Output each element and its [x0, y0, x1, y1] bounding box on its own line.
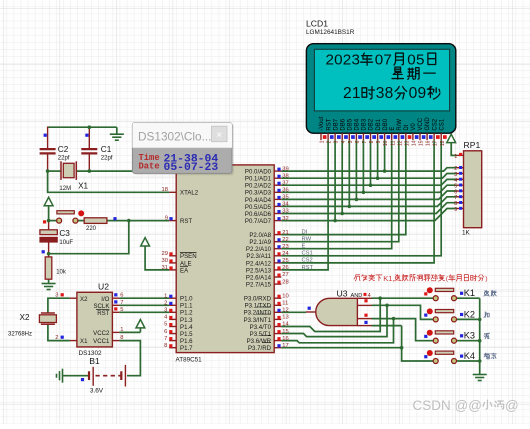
wire: ground rail [479, 298, 481, 374]
svg-text:14: 14 [412, 140, 418, 146]
svg-text:22pf: 22pf [58, 155, 70, 161]
U2 right pin stub y=312.3 [112, 311, 119, 313]
svg-text:16: 16 [282, 336, 288, 342]
RP1 pin stubs [457, 154, 464, 156]
svg-text:6: 6 [164, 329, 167, 335]
wire: P3.4 net to riser/K1 [281, 298, 380, 331]
U2 right pin stub y=332.4 [112, 331, 119, 333]
svg-text:P3.1/TXD: P3.1/TXD [245, 303, 272, 310]
svg-text:28: 28 [282, 279, 288, 285]
svg-text:P1.5: P1.5 [180, 331, 193, 338]
svg-text:PSEN: PSEN [180, 253, 197, 260]
svg-text:2: 2 [55, 335, 58, 341]
svg-text:12: 12 [397, 140, 403, 146]
crystal X1 12M [60, 161, 62, 180]
svg-text:39: 39 [282, 166, 288, 172]
svg-text:3: 3 [55, 293, 58, 299]
svg-text:10uF: 10uF [59, 240, 73, 246]
wire: X1 right to C1 bottom and XTAL1 [76, 170, 169, 172]
svg-text:RST: RST [326, 118, 332, 130]
svg-text:P0.7/AD7: P0.7/AD7 [245, 218, 272, 225]
svg-text:07: 07 [375, 52, 392, 69]
svg-text:K2: K2 [464, 309, 475, 319]
svg-text:VCC: VCC [418, 117, 424, 130]
LCD body [306, 44, 455, 134]
wire: VCC arrow to reset button node [48, 206, 50, 221]
svg-text:13: 13 [282, 315, 288, 321]
svg-text:DB6: DB6 [340, 118, 346, 130]
svg-text:38: 38 [282, 173, 288, 179]
svg-text:P0.3/AD3: P0.3/AD3 [245, 190, 272, 197]
svg-text:10k: 10k [56, 269, 67, 275]
wire: LCD DB0 down [384, 140, 386, 171]
svg-text:5: 5 [348, 140, 354, 143]
svg-text:18: 18 [440, 140, 446, 146]
pushbutton K1 [435, 288, 453, 291]
svg-text:15: 15 [419, 140, 425, 146]
svg-text:38: 38 [376, 85, 394, 102]
capacitor C3 10uF [40, 230, 57, 235]
wire: battery negative to ground [63, 375, 90, 377]
MCU left pin stubs [169, 170, 176, 172]
svg-text:VCC1: VCC1 [93, 338, 110, 345]
svg-text:X1: X1 [78, 182, 88, 191]
svg-text:P1.1: P1.1 [180, 303, 193, 310]
svg-text:9: 9 [165, 216, 168, 222]
wire: LCD CS1 to P2.3 [281, 140, 441, 256]
wire: ground rail above C2/C1 [48, 126, 117, 128]
svg-text:8: 8 [369, 140, 375, 143]
svg-text:11: 11 [282, 301, 288, 307]
svg-text:2: 2 [164, 301, 167, 307]
svg-text:P2.6/A14: P2.6/A14 [246, 274, 272, 281]
wire: P3.5 net to riser [281, 305, 387, 336]
wire: LCD R/W to P2.1 [281, 140, 399, 242]
wire: X2 crystal top lead to U2.X2 [48, 298, 70, 313]
U2 right pin stub y=305.3 [112, 304, 119, 306]
svg-text:XTAL2: XTAL2 [180, 190, 199, 197]
svg-text:22pf: 22pf [101, 155, 113, 161]
svg-text:14: 14 [282, 322, 289, 328]
svg-text:P1.2: P1.2 [180, 310, 193, 317]
svg-text:05-07-23: 05-07-23 [164, 162, 219, 174]
U2 right pin stub y=340.6 [112, 340, 119, 342]
svg-text:P1.7: P1.7 [180, 345, 193, 352]
svg-text:9: 9 [376, 140, 382, 143]
svg-text:11: 11 [390, 140, 396, 145]
svg-text:E: E [302, 244, 306, 250]
wire: AND in2 row to K2 [372, 305, 434, 319]
svg-text:C2: C2 [58, 145, 69, 154]
svg-text:32: 32 [282, 216, 288, 222]
wire: LCD DB4 down [355, 140, 357, 199]
red instruction text [354, 274, 488, 283]
svg-text:): ) [485, 276, 487, 283]
svg-text:P0.2/AD2: P0.2/AD2 [245, 183, 272, 190]
ground (battery, rotated) [57, 369, 63, 383]
svg-text:P1.3: P1.3 [180, 317, 193, 324]
svg-text:CSDN @@: CSDN @@ [413, 398, 482, 413]
svg-text:C3: C3 [59, 229, 70, 238]
svg-text:@: @ [505, 398, 519, 413]
popup window DS1302 clock [132, 123, 233, 176]
svg-text:P2.4/A12: P2.4/A12 [246, 260, 272, 267]
svg-text:P2.2/A10: P2.2/A10 [246, 246, 272, 253]
svg-text:35: 35 [282, 195, 288, 201]
pushbutton K2 [435, 310, 453, 313]
svg-text:21: 21 [343, 85, 361, 102]
svg-text:VCC2: VCC2 [93, 330, 110, 337]
svg-text:1K: 1K [462, 230, 471, 237]
svg-text:13: 13 [404, 140, 410, 146]
svg-text:AND: AND [351, 293, 363, 299]
ground (crystal caps) [116, 127, 118, 134]
crystal X2 32768Hz [41, 312, 55, 314]
wire: P3.2/INT0 to U3 output [281, 311, 306, 313]
svg-text:RP1: RP1 [464, 140, 481, 150]
svg-text:P0.5/AD5: P0.5/AD5 [245, 204, 272, 211]
svg-text:GND: GND [425, 117, 431, 131]
wire: LCD DB1 down [377, 140, 379, 178]
svg-text:DB0: DB0 [383, 118, 389, 130]
svg-text:I/O: I/O [101, 296, 109, 303]
svg-text:CS2: CS2 [302, 258, 313, 264]
U2 left pin stub y=340.6 [70, 340, 77, 342]
svg-text:P1.4: P1.4 [180, 324, 193, 331]
svg-text:26: 26 [282, 265, 288, 271]
svg-text:P2.7/A15: P2.7/A15 [246, 282, 272, 289]
resistor pack RP1 [464, 151, 482, 228]
svg-text:3.6V: 3.6V [90, 387, 104, 394]
ground (buttons) [473, 375, 487, 381]
svg-text:DB2: DB2 [369, 118, 375, 130]
svg-text:P2.3/A11: P2.3/A11 [246, 253, 271, 260]
svg-text:16: 16 [426, 140, 432, 146]
svg-text:09: 09 [409, 85, 427, 102]
svg-text:25: 25 [282, 258, 288, 264]
svg-text:K1: K1 [464, 288, 475, 298]
svg-text:21: 21 [282, 230, 288, 236]
svg-text:1: 1 [320, 140, 326, 143]
LCD pin stubs [320, 133, 322, 140]
power VCC arrow (RP1) [447, 134, 456, 142]
svg-text:DI: DI [404, 124, 410, 130]
U2 right pin stub y=298.2 [112, 297, 119, 299]
svg-text:X1: X1 [80, 338, 88, 345]
svg-text:P3.7/RD: P3.7/RD [248, 345, 272, 352]
wire: U2 SCLK to P1.1 [119, 304, 169, 306]
wire: VCC arrow to RP1 pin1 [451, 143, 456, 156]
watermark CSDN [413, 398, 520, 414]
svg-text:P3.3/INT1: P3.3/INT1 [244, 317, 272, 324]
svg-text:15: 15 [282, 329, 288, 335]
svg-text:10: 10 [282, 293, 288, 299]
svg-text:36: 36 [282, 188, 288, 194]
svg-text:17: 17 [433, 140, 439, 146]
svg-text:18: 18 [162, 187, 168, 193]
svg-text:17: 17 [282, 343, 288, 349]
svg-text:DB1: DB1 [376, 118, 382, 130]
junction dots crystal net [88, 125, 92, 129]
svg-text:7: 7 [120, 300, 123, 306]
svg-text:P0.4/AD4: P0.4/AD4 [245, 197, 272, 204]
svg-text:P1.0: P1.0 [180, 296, 193, 303]
svg-text:X2: X2 [20, 313, 30, 322]
svg-text:5: 5 [164, 322, 167, 328]
svg-text:P3.0/RXD: P3.0/RXD [244, 296, 272, 303]
svg-text:P2.1/A9: P2.1/A9 [249, 239, 271, 246]
svg-text:U2: U2 [98, 282, 109, 292]
wire: LCD DB2 down [370, 140, 372, 185]
svg-text:3: 3 [334, 140, 340, 143]
svg-text:CS1: CS1 [439, 118, 445, 130]
resistor 10k [45, 257, 52, 279]
svg-text:23: 23 [282, 244, 288, 250]
wire: LCD CS2 to P2.4 [281, 140, 434, 263]
svg-text:P1.6: P1.6 [180, 338, 193, 345]
svg-text:7: 7 [362, 140, 368, 143]
wire: C2 down to XTAL2 pin18 [48, 171, 170, 192]
svg-text:P3.5/T1: P3.5/T1 [250, 331, 272, 338]
svg-text:LGM12641BS1R: LGM12641BS1R [306, 29, 355, 36]
svg-text:2: 2 [327, 140, 333, 143]
resistor 220 [84, 218, 107, 224]
svg-text:DB4: DB4 [355, 118, 361, 130]
wire: C3 top lead [48, 221, 50, 230]
svg-text:05: 05 [407, 52, 424, 69]
svg-text:-Vout: -Vout [319, 116, 325, 130]
svg-text:4: 4 [341, 140, 347, 143]
ground (10k) [42, 284, 56, 290]
wire: AND in3 row to K3 [372, 319, 434, 341]
svg-text:5: 5 [120, 307, 123, 313]
svg-text:DB5: DB5 [348, 118, 354, 130]
svg-text:RST: RST [302, 265, 314, 271]
wire: U2 RST to P1.2 [119, 311, 169, 313]
svg-text:3: 3 [164, 308, 167, 314]
wire: LCD DB6 down [341, 140, 343, 213]
MCU right pin stubs [274, 170, 281, 172]
wire: C3 bottom to 10k [48, 242, 50, 257]
power VCC arrow (EA pin31) [141, 238, 150, 246]
svg-text:24: 24 [282, 251, 289, 257]
svg-text:1: 1 [120, 327, 123, 333]
power VCC arrow (U2 VCC2) [136, 320, 145, 328]
pushbutton K3 [435, 331, 453, 334]
svg-text:K3: K3 [464, 331, 475, 341]
svg-text:31: 31 [162, 265, 168, 271]
svg-text:LCD1: LCD1 [306, 19, 328, 29]
svg-text:P3.4/T0: P3.4/T0 [250, 324, 272, 331]
svg-text:DB3: DB3 [362, 118, 368, 130]
svg-text:32768Hz: 32768Hz [8, 332, 32, 338]
wire: LCD DB3 down [362, 140, 364, 192]
svg-text:CS1: CS1 [302, 251, 313, 257]
svg-text:EA: EA [180, 267, 189, 274]
svg-text:P0.0/AD0: P0.0/AD0 [245, 169, 272, 176]
wire: U2 VCC1 to battery positive [119, 341, 140, 376]
wire: reset row VCC->button->R->RST pin9 [49, 220, 57, 222]
wire: LCD DI to P2.0 [281, 140, 406, 234]
svg-text:4: 4 [368, 293, 371, 299]
wire: buttons right terminals to ground rail [456, 297, 479, 299]
wire: LCD RST pin2 to P2.5 [281, 140, 328, 270]
svg-text:C1: C1 [101, 145, 112, 154]
svg-text:37: 37 [282, 180, 288, 186]
svg-text:6: 6 [120, 293, 123, 299]
svg-text:ALE: ALE [180, 260, 192, 267]
svg-text:K1,: K1, [383, 274, 394, 283]
power VCC arrow (reset) [44, 197, 53, 205]
wire: 10k bottom to ground [48, 279, 50, 283]
wire: C1 top lead [88, 127, 90, 148]
IC U1 AT89C51 [176, 165, 274, 353]
svg-text:R/W: R/W [397, 119, 403, 131]
capacitor C1 [81, 148, 97, 150]
svg-text:DS1302\Clo...: DS1302\Clo... [138, 130, 211, 144]
wire: P3.6 net to riser [281, 319, 393, 343]
wire: P3.7 net riser to AND in4 and K4 [281, 347, 401, 349]
wire: P0 bus rows to RP1 [281, 168, 456, 171]
svg-text:B1: B1 [89, 356, 100, 366]
svg-text:10: 10 [383, 140, 389, 146]
svg-text:CS2: CS2 [432, 118, 438, 130]
capacitor C2 [40, 148, 56, 150]
svg-text:8: 8 [164, 343, 167, 349]
svg-text:DI: DI [302, 229, 308, 235]
wire: LCD E to P2.2 [281, 140, 391, 249]
svg-text:AT89C51: AT89C51 [176, 357, 203, 364]
wire: U2 I/O to P1.0 [119, 297, 169, 299]
svg-text:22: 22 [282, 237, 288, 243]
svg-text:DB7: DB7 [333, 118, 339, 130]
svg-text:34: 34 [282, 202, 289, 208]
gate U3 AND_4 [316, 298, 358, 325]
svg-text:×: × [216, 129, 222, 141]
svg-text:220: 220 [86, 226, 97, 232]
svg-text:P2.5/A13: P2.5/A13 [246, 267, 272, 274]
svg-text:E: E [390, 127, 396, 131]
reset button [57, 211, 74, 214]
wire: X2 crystal bottom lead to U2.X1 [48, 324, 70, 340]
svg-text:X2: X2 [80, 296, 88, 303]
svg-text:V0: V0 [411, 123, 417, 131]
svg-text:27: 27 [282, 272, 288, 278]
svg-text:7: 7 [164, 336, 167, 342]
svg-text:9: 9 [454, 207, 457, 213]
svg-text:6: 6 [355, 140, 361, 143]
wire: EA to VCC arrow [145, 246, 169, 270]
wire: U2 VCC2 to power arrow [119, 331, 140, 333]
svg-text:12: 12 [282, 308, 288, 314]
IC U2 DS1302 [77, 292, 113, 347]
wire: LCD DB5 down [348, 140, 350, 206]
battery B1 3.6V [88, 371, 90, 380]
svg-text:1: 1 [454, 154, 457, 160]
svg-text:1: 1 [164, 293, 167, 299]
svg-text:U3: U3 [337, 289, 348, 299]
svg-text:RST: RST [97, 310, 109, 317]
svg-text:12M: 12M [59, 186, 71, 192]
pushbutton K4 [435, 351, 453, 354]
svg-text:P3.2/INT0: P3.2/INT0 [244, 310, 272, 317]
svg-text:29: 29 [162, 251, 168, 257]
wire: LCD DB7 down [334, 140, 336, 220]
svg-text:Date: Date [139, 162, 160, 172]
svg-text:RW: RW [302, 237, 312, 243]
svg-text:SCLK: SCLK [93, 303, 109, 310]
svg-text:P0.6/AD6: P0.6/AD6 [245, 211, 272, 218]
svg-text:33: 33 [282, 209, 288, 215]
svg-text:RST: RST [180, 218, 192, 225]
U2 left pin stub y=298.2 [70, 297, 77, 299]
svg-text:K4: K4 [464, 351, 475, 361]
wire: AND in1 row to K1 [372, 297, 434, 299]
svg-text:P2.0/A8: P2.0/A8 [249, 232, 271, 239]
LCD text line2 [392, 67, 403, 79]
svg-text:2023: 2023 [326, 52, 361, 69]
wire: reset feedback to RST net [49, 221, 129, 254]
wire: C2 bottom to X1 row [47, 154, 49, 171]
wire: C2 top lead [47, 127, 49, 149]
svg-text:P0.1/AD1: P0.1/AD1 [245, 176, 272, 183]
svg-text:8: 8 [120, 335, 123, 341]
LCD screen [314, 49, 449, 111]
svg-text:P3.6/WR: P3.6/WR [247, 338, 272, 345]
junction dots DB staircase [333, 219, 337, 223]
svg-text:30: 30 [162, 258, 168, 264]
